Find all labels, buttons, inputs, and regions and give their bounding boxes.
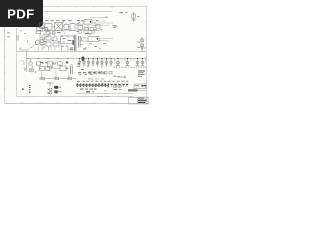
- svg-text:PDF: PDF: [7, 7, 34, 22]
